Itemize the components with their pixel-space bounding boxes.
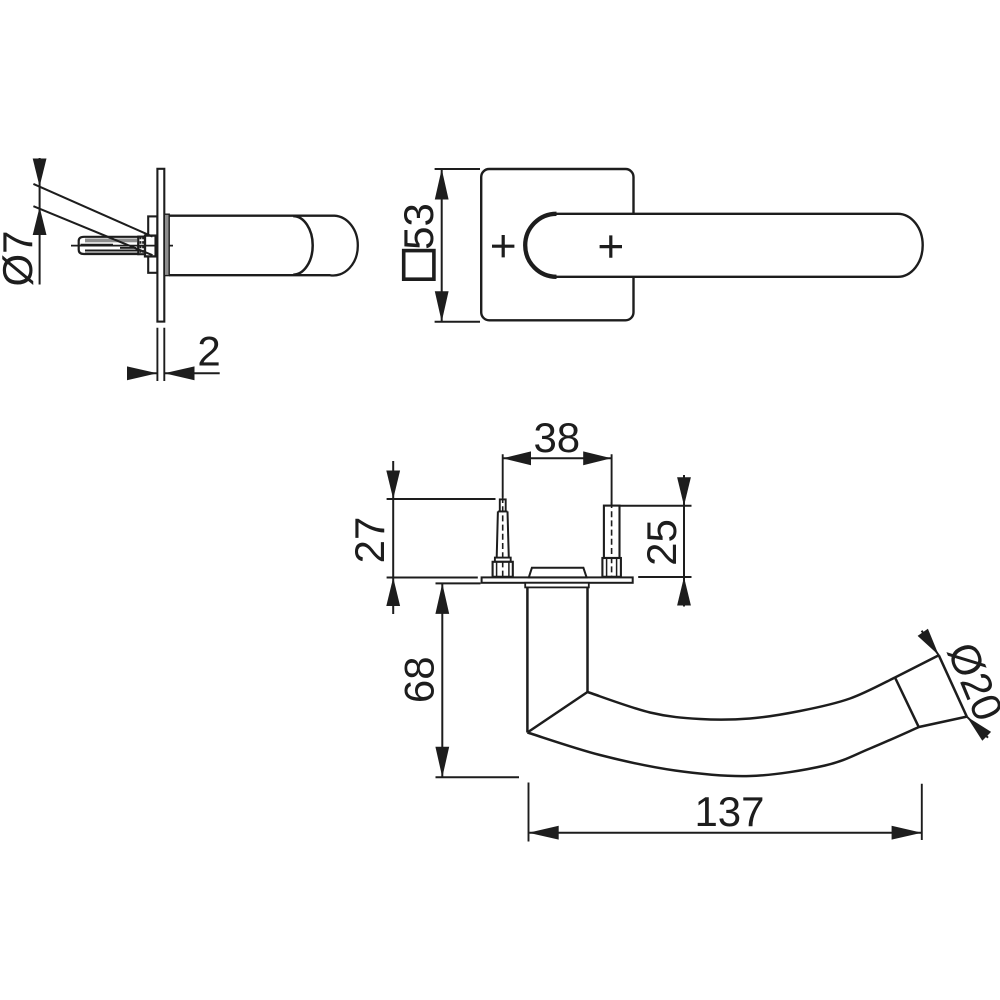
svg-text:137: 137 [694,788,764,835]
svg-text:38: 38 [533,414,580,461]
svg-text:Ø7: Ø7 [0,230,41,286]
svg-text:25: 25 [638,519,685,566]
svg-text:27: 27 [346,517,393,564]
svg-text:53: 53 [395,203,442,250]
svg-text:2: 2 [197,328,220,375]
svg-text:68: 68 [396,656,443,703]
